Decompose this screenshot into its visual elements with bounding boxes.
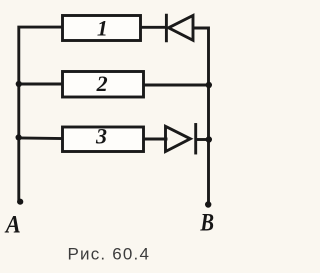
- terminal dot A: [17, 199, 23, 205]
- diode VD3 cathode bar: [194, 125, 197, 154]
- resistor 2: [63, 72, 144, 98]
- wire: row3 box to diode: [144, 138, 166, 141]
- wire: right vertical bus B: [194, 28, 209, 204]
- svg-text:2: 2: [96, 71, 108, 96]
- resistor 3: [63, 127, 144, 152]
- wire: diode3 to right bus: [196, 138, 209, 141]
- wire: left vertical bus A: [19, 27, 62, 201]
- wire: row2 right branch: [144, 84, 209, 87]
- diode VD3 triangle (cathode right): [166, 126, 191, 151]
- diode VD1 triangle (cathode left): [169, 16, 194, 41]
- wire: row1 box to diode: [141, 26, 166, 29]
- terminal dot B: [205, 201, 211, 207]
- wire: row3 left branch: [19, 137, 63, 140]
- junction node row3 left: [16, 134, 22, 140]
- svg-text:B: B: [199, 209, 214, 236]
- svg-text:A: A: [4, 211, 21, 238]
- svg-text:3: 3: [95, 123, 107, 148]
- junction node row3 right: [206, 136, 212, 142]
- resistor 1: [63, 16, 141, 41]
- junction node row2 right: [206, 82, 212, 88]
- svg-text:Рис. 60.4: Рис. 60.4: [67, 245, 150, 264]
- wire: row2 left branch: [19, 83, 63, 86]
- junction node row2 left: [16, 81, 22, 87]
- svg-text:1: 1: [97, 15, 108, 40]
- diode VD1 cathode bar: [165, 15, 168, 41]
